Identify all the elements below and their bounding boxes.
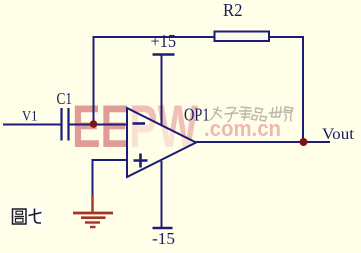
- svg-text:+15: +15: [151, 31, 177, 51]
- svg-text:V1: V1: [22, 109, 38, 125]
- svg-text:.com.cn: .com.cn: [204, 116, 281, 141]
- svg-text:OP1: OP1: [184, 105, 210, 125]
- svg-text:C1: C1: [57, 89, 73, 108]
- svg-text:Vout: Vout: [322, 126, 355, 143]
- svg-text:EE: EE: [72, 94, 129, 161]
- svg-text:-15: -15: [152, 229, 175, 248]
- svg-text:R2: R2: [223, 0, 243, 20]
